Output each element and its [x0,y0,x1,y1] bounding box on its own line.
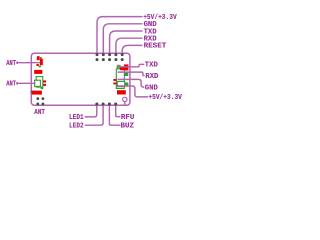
svg-text:ANT: ANT [6,81,16,89]
svg-text:BUZ: BUZ [121,123,135,131]
svg-text:ANT: ANT [6,60,16,68]
svg-text:ANT: ANT [34,109,45,117]
svg-text:LED2: LED2 [69,123,84,131]
svg-text:TXD: TXD [145,62,158,70]
svg-text:RESET: RESET [144,43,167,51]
svg-text:+5V/+3.3V: +5V/+3.3V [148,94,182,102]
svg-text:RXD: RXD [145,73,158,81]
svg-text:RFU: RFU [121,114,135,122]
svg-text:LED1: LED1 [69,114,84,122]
svg-text:GND: GND [145,84,158,92]
